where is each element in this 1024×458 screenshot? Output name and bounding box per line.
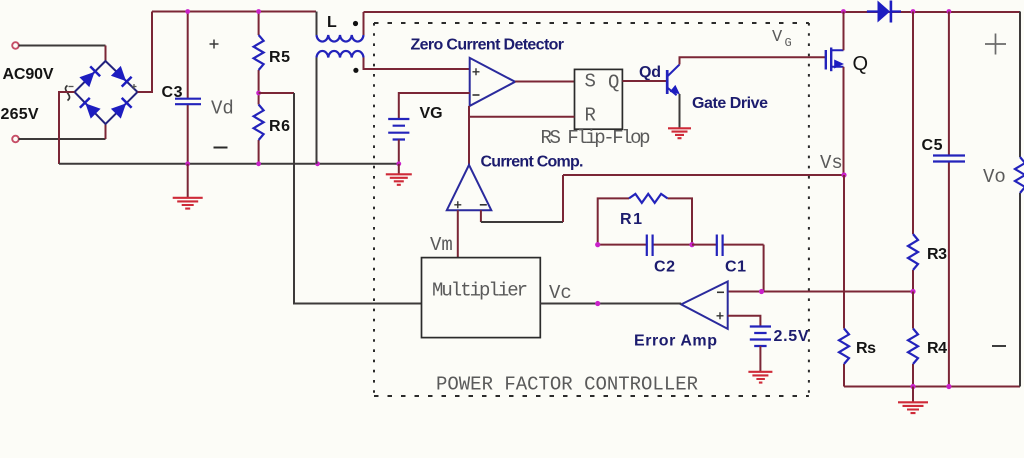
svg-text:R5: R5: [269, 49, 290, 66]
PFC controller dashed box: [374, 23, 809, 396]
AC terminal top: [12, 42, 19, 49]
wire secondary to ZCD: [364, 58, 470, 70]
svg-text:AC90V: AC90V: [3, 66, 54, 83]
AC squiggle: [65, 86, 69, 101]
ZCD minus pin: [473, 94, 480, 96]
resistor R3: [912, 12, 914, 292]
capacitor C1: [692, 244, 764, 246]
capacitor C5: [948, 12, 950, 387]
ground below Qd: [668, 128, 691, 138]
wire C1 to error amp minus: [763, 245, 765, 292]
svg-text:RS Flip-Flop: RS Flip-Flop: [541, 127, 651, 149]
label VG subscript node: [772, 28, 792, 50]
node error amp minus: [759, 289, 764, 294]
wire CC minus to Vs riser: [481, 221, 563, 223]
node R1 left: [595, 242, 600, 247]
svg-text:R6: R6: [269, 118, 290, 135]
node divider tap: [910, 289, 915, 294]
transistor Qd: [667, 65, 683, 98]
wire EA plus to reference: [728, 316, 761, 326]
CC plus pin: [454, 201, 461, 208]
node R1 right: [689, 242, 694, 247]
bridge plus mark: [132, 84, 137, 89]
capacitor C3: [187, 12, 189, 99]
wire L to top rail: [363, 12, 365, 35]
resistor R4: [912, 292, 914, 387]
bridge diode D3: [80, 98, 101, 119]
wire right vertex to DC plus: [138, 12, 153, 93]
wire to flip-flop R: [470, 116, 575, 118]
capacitor C2: [598, 244, 692, 246]
transistor Q MOSFET: [826, 48, 844, 72]
AC terminal bottom: [12, 136, 19, 143]
bridge minus mark: [69, 86, 74, 88]
svg-text:Current Comp.: Current Comp.: [481, 154, 584, 171]
svg-text:Vs: Vs: [820, 152, 843, 174]
boost diode: [867, 1, 901, 23]
wire VG battery to ground: [398, 140, 400, 164]
battery 2.5V reference: [750, 327, 771, 347]
svg-text:G: G: [785, 36, 792, 50]
wire from bottom terminal: [19, 138, 106, 140]
resistor R6: [258, 93, 260, 164]
wire from top terminal: [19, 45, 106, 47]
svg-text:Error Amp: Error Amp: [634, 333, 717, 350]
wire divider tap: [259, 92, 294, 94]
multiplier box: [422, 258, 541, 338]
output minus sign: [992, 345, 1006, 347]
bridge diode D1: [79, 66, 100, 87]
battery VG: [388, 119, 409, 140]
ground below reference: [748, 372, 772, 383]
wire Vs riser: [562, 175, 564, 222]
node R5 R6 junction: [256, 91, 261, 96]
ground below C3: [187, 164, 189, 198]
node secondary bottom: [315, 161, 320, 166]
wire ZCD output to flip-flop: [515, 81, 574, 83]
node C5 bottom: [946, 384, 951, 389]
svg-text:L: L: [327, 14, 337, 31]
svg-text:C2: C2: [654, 259, 675, 276]
node Vc compensation: [595, 301, 600, 306]
wire Q source to Vs: [843, 67, 845, 175]
resistor R1: [598, 198, 692, 244]
EA minus pin: [717, 291, 724, 293]
node drain rail: [841, 9, 846, 14]
output plus sign: [985, 34, 1006, 55]
wire CC plus to multiplier: [457, 210, 459, 257]
svg-text:C5: C5: [922, 137, 943, 154]
svg-text:R: R: [585, 105, 596, 127]
svg-text:R3: R3: [927, 246, 947, 263]
op-amp ZCD comparator: [470, 58, 515, 106]
node VG ground: [396, 161, 401, 166]
node C3 top: [185, 9, 190, 14]
svg-text:265V: 265V: [1, 106, 39, 123]
wire Qd collector to gate: [680, 57, 826, 64]
svg-text:Rs: Rs: [856, 340, 876, 357]
polarity dot primary: [353, 21, 358, 26]
bridge diode D2: [111, 66, 132, 87]
RS flip-flop box: [575, 69, 623, 129]
wire VG to ZCD minus: [399, 93, 470, 119]
node Vs: [841, 172, 846, 177]
C3 plus sign: [210, 40, 219, 49]
svg-text:Vo: Vo: [983, 166, 1006, 188]
svg-text:Qd: Qd: [639, 64, 661, 81]
wire Vd sense to multiplier: [294, 93, 422, 304]
polarity dot secondary: [353, 68, 358, 73]
wire top rail right: [364, 11, 1021, 13]
svg-text:Vm: Vm: [430, 234, 453, 256]
svg-text:2.5V: 2.5V: [774, 328, 809, 345]
ground below VG: [398, 164, 400, 174]
wire error amp minus to divider: [728, 291, 913, 293]
svg-text:Q: Q: [853, 53, 869, 75]
wire Qd emitter to ground: [679, 94, 681, 128]
CC minus pin: [480, 204, 487, 206]
svg-text:R4: R4: [927, 340, 947, 357]
wire top vertex drop: [105, 46, 107, 62]
svg-text:Zero Current Detector: Zero Current Detector: [411, 37, 565, 54]
node R3 rail: [911, 9, 916, 14]
resistor Rs: [843, 175, 845, 387]
svg-text:POWER FACTOR CONTROLLER: POWER FACTOR CONTROLLER: [436, 374, 698, 396]
wire top rail left: [152, 11, 316, 13]
svg-text:Vc: Vc: [549, 282, 572, 304]
resistor R5: [258, 12, 260, 94]
wire rail drop to L: [316, 12, 318, 36]
C3 minus sign: [214, 147, 228, 149]
node divider bottom: [910, 384, 915, 389]
svg-text:Vd: Vd: [211, 98, 234, 120]
node R5 top: [256, 9, 261, 14]
svg-text:S: S: [585, 71, 596, 93]
EA plus pin: [717, 312, 724, 319]
load resistor Vo: [1019, 12, 1021, 387]
svg-text:Gate Drive: Gate Drive: [692, 95, 768, 112]
ZCD plus pin: [473, 68, 480, 75]
ground below output rail: [912, 387, 914, 403]
inductor L primary winding: [317, 35, 364, 42]
bridge rectifier diamond: [75, 61, 138, 124]
wire Vs line: [563, 174, 844, 176]
node C5 rail: [947, 9, 952, 14]
wire CC output riser: [468, 106, 470, 165]
svg-text:Multiplier: Multiplier: [432, 280, 528, 302]
svg-text:C1: C1: [725, 259, 746, 276]
wire bottom DC rail: [59, 163, 399, 165]
wire CC minus drop: [480, 210, 482, 222]
wire reference to ground: [759, 346, 761, 372]
wire secondary left drop: [316, 58, 318, 164]
op-amp current comparator: [447, 165, 492, 210]
svg-text:Q: Q: [608, 72, 619, 94]
op-amp error amplifier: [681, 282, 728, 329]
wire Q drain to rail: [843, 12, 845, 51]
svg-text:VG: VG: [420, 105, 443, 122]
inductor L secondary winding: [317, 51, 364, 58]
svg-text:V: V: [772, 28, 783, 47]
node C3 bottom: [185, 161, 190, 166]
node R6 bottom: [256, 161, 261, 166]
wire output bottom rail: [844, 386, 1020, 388]
bridge diode D4: [111, 98, 132, 119]
wire flip-flop Q to Qd base: [622, 80, 666, 82]
wire bottom vertex drop: [105, 124, 107, 139]
wire multiplier Vc to error amp: [540, 303, 681, 305]
svg-text:C3: C3: [162, 84, 183, 101]
wire left vertex to DC minus: [59, 92, 75, 164]
svg-text:R1: R1: [620, 211, 642, 228]
